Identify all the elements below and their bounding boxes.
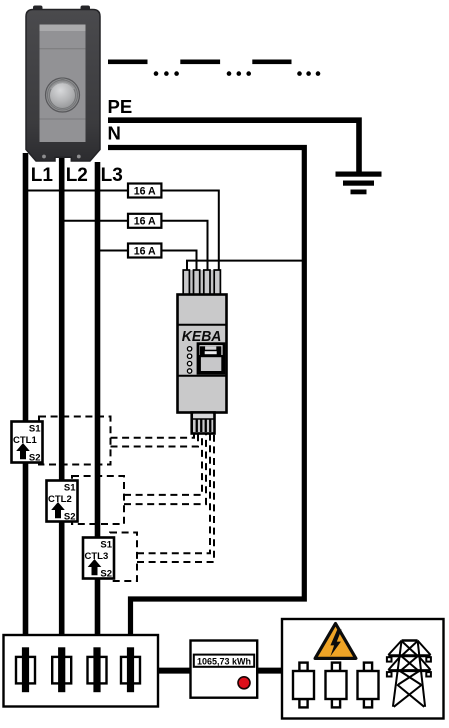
wire L3 bbox=[95, 162, 101, 650]
dashed CT loop rectangle for CTL1 bbox=[39, 417, 111, 465]
fuse element 2 bbox=[52, 647, 71, 692]
fuse F2 16 A bbox=[128, 214, 161, 228]
svg-text:16 A: 16 A bbox=[134, 245, 156, 257]
dashed wire CTL1 S2 to meter bbox=[111, 434, 199, 447]
current transformer CTL2 bbox=[47, 481, 78, 523]
svg-text:N: N bbox=[108, 123, 121, 144]
svg-text:CTL2: CTL2 bbox=[48, 494, 72, 505]
ground symbol bbox=[336, 172, 382, 195]
svg-text:L3: L3 bbox=[101, 165, 123, 186]
dashed wire CTL1 S1 to meter bbox=[111, 434, 195, 438]
label L2 bbox=[66, 165, 88, 186]
distribution fuse box bbox=[4, 635, 159, 707]
wire L1 bbox=[23, 153, 29, 650]
dashed CT loop rectangle for CTL2 bbox=[72, 476, 124, 524]
transformer symbol T2 bbox=[326, 663, 347, 708]
svg-text:CTL3: CTL3 bbox=[85, 551, 109, 562]
wire L1 to fuse F1 bbox=[26, 190, 129, 192]
wire N bbox=[108, 148, 304, 637]
svg-text:16 A: 16 A bbox=[134, 185, 156, 197]
svg-text:S1: S1 bbox=[64, 483, 76, 494]
wire L2 bbox=[59, 158, 65, 650]
wire N branch to meter pin 1 bbox=[187, 261, 304, 272]
dashed wire CTL2 S2 to meter bbox=[124, 434, 206, 505]
wire fuse F2 to meter pin 3 bbox=[161, 221, 207, 272]
current transformer CTL3 bbox=[83, 538, 114, 580]
svg-text:S2: S2 bbox=[29, 452, 41, 463]
wire PE bbox=[108, 120, 359, 172]
current transformer CTL1 bbox=[12, 422, 43, 464]
svg-text:CTL1: CTL1 bbox=[13, 435, 37, 446]
wire fuse F1 to meter pin 4 bbox=[161, 191, 218, 273]
dashed wire CTL2 S1 to meter bbox=[124, 434, 202, 495]
label L1 bbox=[31, 165, 54, 186]
wire fuse F3 to meter pin 2 bbox=[161, 251, 196, 273]
wallbox charging station bbox=[26, 6, 100, 162]
dashed CT loop rectangle for CTL3 bbox=[110, 533, 137, 582]
transformer symbol T3 bbox=[358, 663, 379, 708]
dash-dot continuation line bbox=[108, 60, 320, 76]
fuse F3 16 A bbox=[128, 244, 161, 258]
wire L2 to fuse F2 bbox=[62, 220, 128, 222]
fuse element 1 bbox=[16, 647, 35, 692]
label PE bbox=[108, 96, 133, 117]
warning triangle with lightning bbox=[315, 624, 356, 659]
svg-text:16 A: 16 A bbox=[134, 216, 156, 228]
svg-text:PE: PE bbox=[108, 96, 133, 117]
svg-text:S2: S2 bbox=[100, 568, 112, 579]
svg-text:S2: S2 bbox=[64, 511, 76, 522]
svg-text:L2: L2 bbox=[66, 165, 88, 186]
utility supply box bbox=[282, 619, 444, 719]
svg-text:S1: S1 bbox=[100, 540, 112, 551]
svg-text:S1: S1 bbox=[29, 424, 41, 435]
fuse element 3 bbox=[88, 647, 107, 692]
transmission tower icon bbox=[387, 641, 431, 707]
fuse element 4 bbox=[121, 647, 140, 692]
fuse F1 16 A bbox=[128, 184, 161, 198]
svg-text:1065,73 kWh: 1065,73 kWh bbox=[197, 656, 251, 666]
label N bbox=[108, 123, 121, 144]
transformer symbol T1 bbox=[293, 663, 314, 708]
dashed wire CTL3 S2 to meter bbox=[137, 434, 214, 563]
label L3 bbox=[101, 165, 123, 186]
wire kWh meter to utility box bbox=[257, 668, 282, 674]
energy meter U1 KEBA bbox=[178, 270, 227, 434]
wire L3 to fuse F3 bbox=[98, 250, 129, 252]
svg-text:L1: L1 bbox=[31, 165, 54, 186]
kWh meter M1 bbox=[191, 641, 258, 698]
dashed wire CTL3 S1 to meter bbox=[137, 434, 210, 554]
wire fuse box to kWh meter bbox=[158, 668, 191, 674]
